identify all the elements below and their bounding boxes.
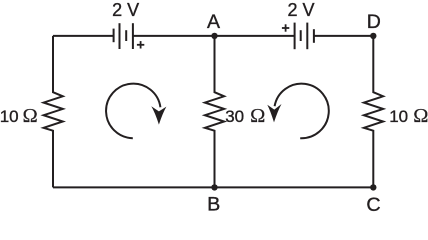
svg-text:Ω: Ω (413, 105, 428, 127)
svg-text:10: 10 (0, 107, 19, 126)
svg-text:D: D (367, 11, 381, 33)
svg-text:30: 30 (225, 107, 244, 126)
svg-text:2 V: 2 V (287, 0, 314, 20)
svg-text:2 V: 2 V (112, 0, 139, 20)
svg-text:B: B (207, 194, 220, 215)
svg-text:10: 10 (389, 107, 408, 126)
svg-text:Ω: Ω (250, 105, 265, 127)
svg-text:Ω: Ω (23, 105, 38, 127)
svg-text:C: C (366, 194, 380, 215)
svg-text:A: A (207, 11, 220, 33)
